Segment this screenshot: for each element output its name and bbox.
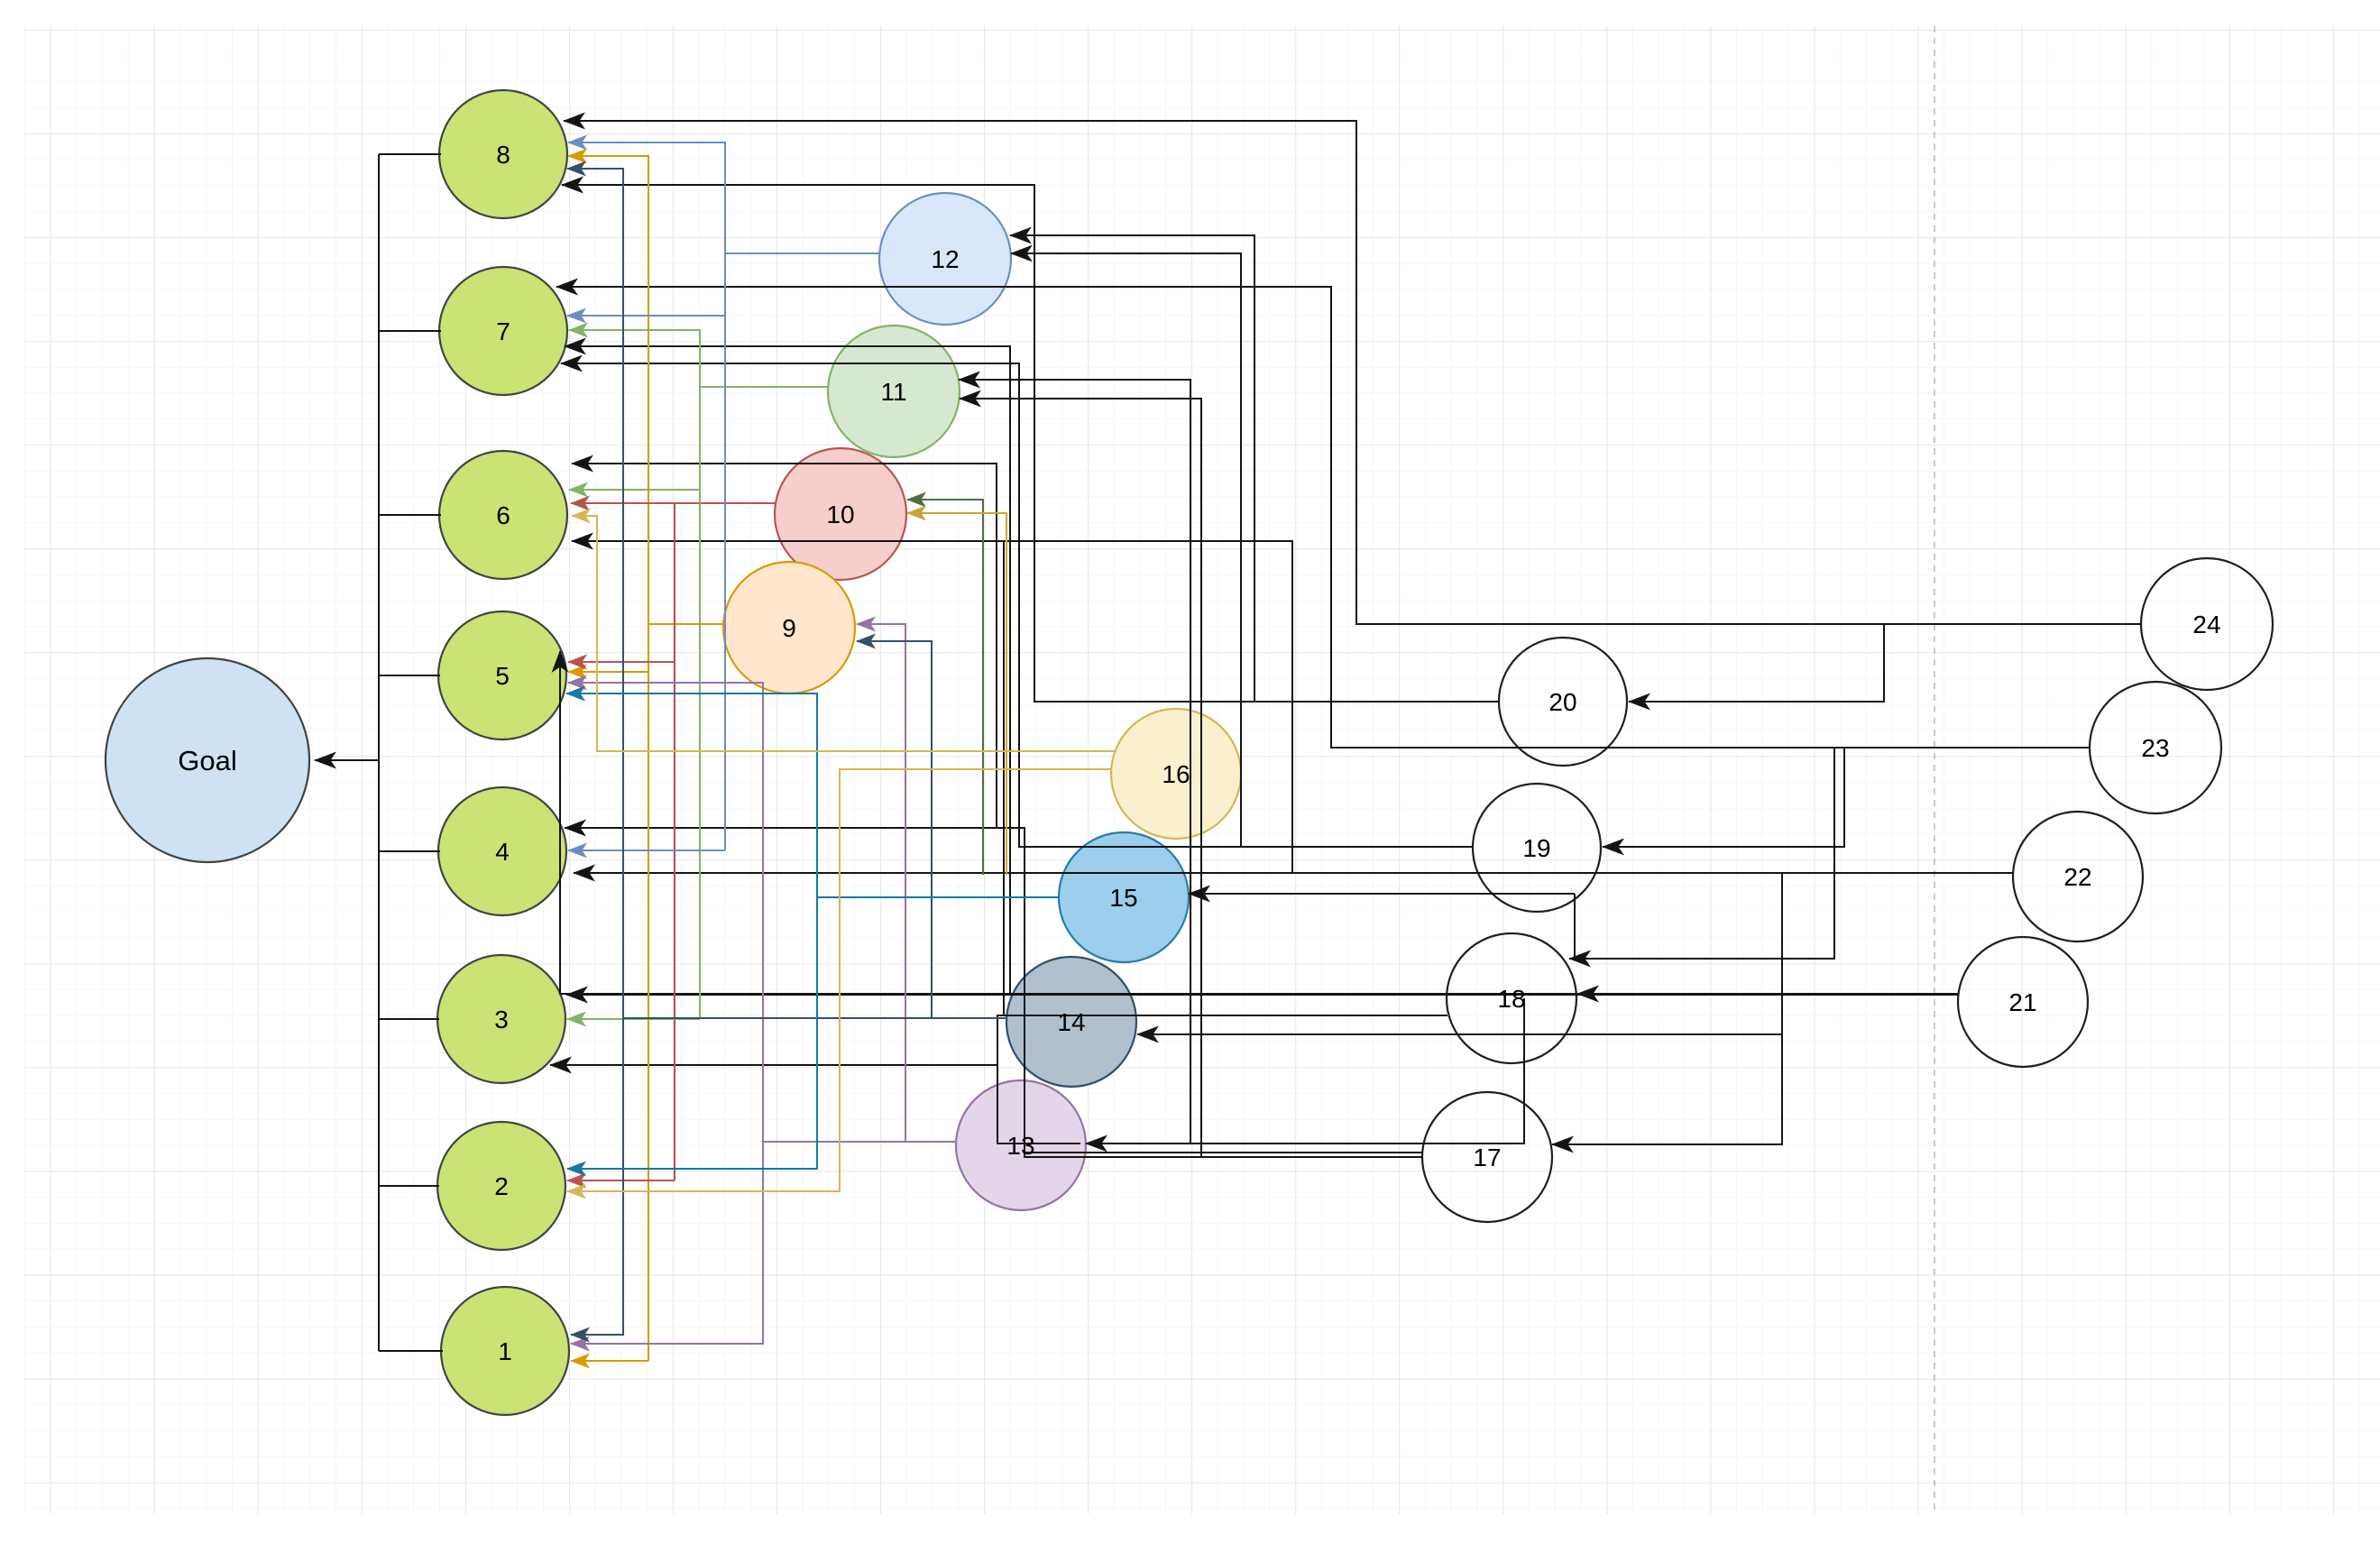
node 7 (green)	[439, 267, 567, 395]
edge 24 to 20	[1629, 624, 2142, 702]
node 6 (green)	[439, 451, 567, 579]
wire trunk vertical	[378, 154, 380, 1351]
edge 18 to 13	[1086, 998, 1524, 1143]
node 14 (colored)	[1006, 957, 1136, 1087]
node 1 (green)	[441, 1287, 569, 1415]
edge unknown to 10 (dark green)	[907, 500, 983, 875]
edge 21 to 7	[565, 346, 1958, 994]
wire stub node 3 to trunk	[379, 1018, 439, 1020]
node 10 (colored)	[775, 448, 906, 580]
edge 13 to 5 (purple)	[568, 683, 956, 1142]
edge 18 to 6	[572, 541, 1447, 1015]
node 12 (colored)	[879, 193, 1011, 325]
wire stub node 8 to trunk	[379, 153, 441, 155]
edge 9 to 1 (orange)	[571, 1360, 648, 1362]
node 9 (colored)	[723, 562, 855, 693]
edge 11 to 3 (green)	[567, 1018, 700, 1020]
svg-text:15: 15	[1109, 884, 1137, 912]
svg-text:8: 8	[496, 141, 510, 169]
wire 18-3 drop continuation	[997, 1065, 1080, 1143]
svg-text:10: 10	[826, 501, 854, 528]
node 24 (white)	[2141, 558, 2273, 690]
svg-text:23: 23	[2141, 734, 2169, 762]
edge 22 to 6	[1004, 541, 2013, 873]
wire stub node 4 to trunk	[379, 850, 440, 852]
edge 22 to 4	[574, 872, 2013, 874]
edge 12 to 4 (blue)	[568, 850, 725, 851]
node 15 (colored)	[1059, 832, 1189, 962]
edge 24 to 8	[564, 121, 2142, 624]
edge 15 to 2 (teal)	[567, 897, 817, 1169]
node 18 (white)	[1447, 933, 1576, 1063]
node Goal	[106, 658, 309, 862]
node 21 (white)	[1958, 937, 2088, 1067]
edge 12 to 7 (blue)	[567, 315, 725, 317]
edge 17 to 6	[572, 464, 1423, 1153]
node 19 (white)	[1473, 784, 1601, 912]
edge 12 to 8 (blue)	[568, 142, 879, 253]
wire stub node 5 to trunk	[379, 675, 440, 676]
edge 18 to 11	[959, 380, 1524, 1143]
edge trunk to Goal	[315, 759, 379, 761]
edge 16 to 2 (yellow)	[567, 769, 1111, 1191]
svg-text:3: 3	[494, 1006, 509, 1033]
svg-text:14: 14	[1057, 1008, 1085, 1036]
svg-text:13: 13	[1006, 1132, 1034, 1160]
edge 9 to 5 (orange)	[568, 671, 648, 673]
svg-text:20: 20	[1548, 688, 1576, 716]
svg-text:21: 21	[2008, 988, 2036, 1016]
node 2 (green)	[437, 1122, 565, 1250]
svg-text:2: 2	[494, 1172, 509, 1200]
svg-text:1: 1	[498, 1337, 512, 1365]
edge 14 to 1 (slate)	[571, 1018, 623, 1335]
node 16 (colored)	[1111, 709, 1241, 839]
node 8 (green)	[439, 90, 567, 218]
wire stub node 7 to trunk	[379, 330, 441, 332]
edge 23 to 19	[1603, 748, 2091, 847]
svg-text:12: 12	[931, 245, 959, 273]
svg-text:18: 18	[1497, 985, 1525, 1013]
node 11 (colored)	[828, 326, 960, 457]
svg-text:24: 24	[2192, 611, 2220, 638]
edge 11 to 6 (green)	[569, 489, 700, 491]
edge 9 to 8 (orange)	[568, 156, 723, 624]
edge 10 to 6 (red)	[571, 502, 776, 504]
node 20 (white)	[1499, 638, 1627, 766]
wire 9 vertical (orange)	[648, 624, 649, 1361]
edge 18 to 3	[550, 1015, 1447, 1065]
svg-text:7: 7	[496, 317, 510, 345]
wire stub node 1 to trunk	[379, 1350, 443, 1352]
svg-text:16: 16	[1162, 760, 1190, 788]
edge 16 to 6 (yellow)	[572, 516, 1116, 751]
wire stub node 6 to trunk	[379, 514, 441, 516]
svg-text:22: 22	[2063, 863, 2091, 891]
edge 10 to 5 (red)	[568, 661, 675, 663]
wire 19 bottom stub	[1574, 894, 1576, 957]
svg-text:19: 19	[1522, 834, 1550, 862]
svg-text:6: 6	[496, 501, 510, 529]
edge 20 to 12	[1010, 235, 1500, 702]
svg-text:Goal: Goal	[178, 745, 236, 776]
edge 19 to 7	[561, 363, 1473, 847]
edge 15 to 5 (teal)	[566, 693, 1059, 897]
edge 22 to 17	[1552, 873, 2013, 1144]
svg-text:17: 17	[1473, 1143, 1501, 1171]
edge unknown to 10 (dark yellow)	[907, 513, 1006, 875]
wire stub node 2 to trunk	[379, 1185, 439, 1187]
wire 11 vertical (green)	[699, 387, 701, 1019]
edge 17 to 4	[565, 828, 1423, 1157]
node 4 (green)	[438, 787, 566, 915]
page break dashed line	[1934, 26, 1935, 1514]
node 17 (white)	[1422, 1092, 1552, 1222]
node 13 (colored)	[956, 1080, 1086, 1210]
edge 21 to 3	[566, 994, 1958, 996]
edge 13 to 9 (purple)	[857, 624, 956, 1142]
edge 10 to 2 (red)	[567, 1180, 675, 1181]
edge 23 to 18	[1569, 748, 2091, 959]
edge 11 to 7 (green)	[569, 330, 829, 387]
wire 10 vertical (red)	[674, 503, 675, 1180]
edge 19 to 15	[1189, 893, 1575, 895]
edge 14 to 9 (slate)	[857, 641, 1006, 1018]
edge 14 to 8 (slate)	[567, 169, 623, 1018]
edge 22 to 14	[1137, 873, 2013, 1034]
edge 23 to 7	[556, 287, 2091, 748]
node 5 (green)	[438, 611, 566, 739]
wire 14 horizontal (slate)	[623, 1017, 932, 1019]
edge 17 to 11	[960, 399, 1423, 1157]
node 22 (white)	[2013, 812, 2143, 941]
edge 20 to 8	[562, 185, 1500, 702]
node 23 (white)	[2090, 682, 2221, 813]
node 3 (green)	[437, 955, 565, 1083]
edge 21 to 18	[1577, 993, 1958, 995]
svg-text:11: 11	[880, 378, 906, 406]
edge 19 to 12	[1011, 253, 1473, 847]
svg-text:5: 5	[495, 662, 510, 690]
wire 12 vertical (blue)	[724, 253, 726, 850]
svg-text:9: 9	[782, 614, 796, 642]
svg-text:4: 4	[495, 838, 510, 866]
edge 13 to 1 (purple)	[571, 1142, 763, 1344]
edge 21 to 5	[560, 651, 1958, 994]
